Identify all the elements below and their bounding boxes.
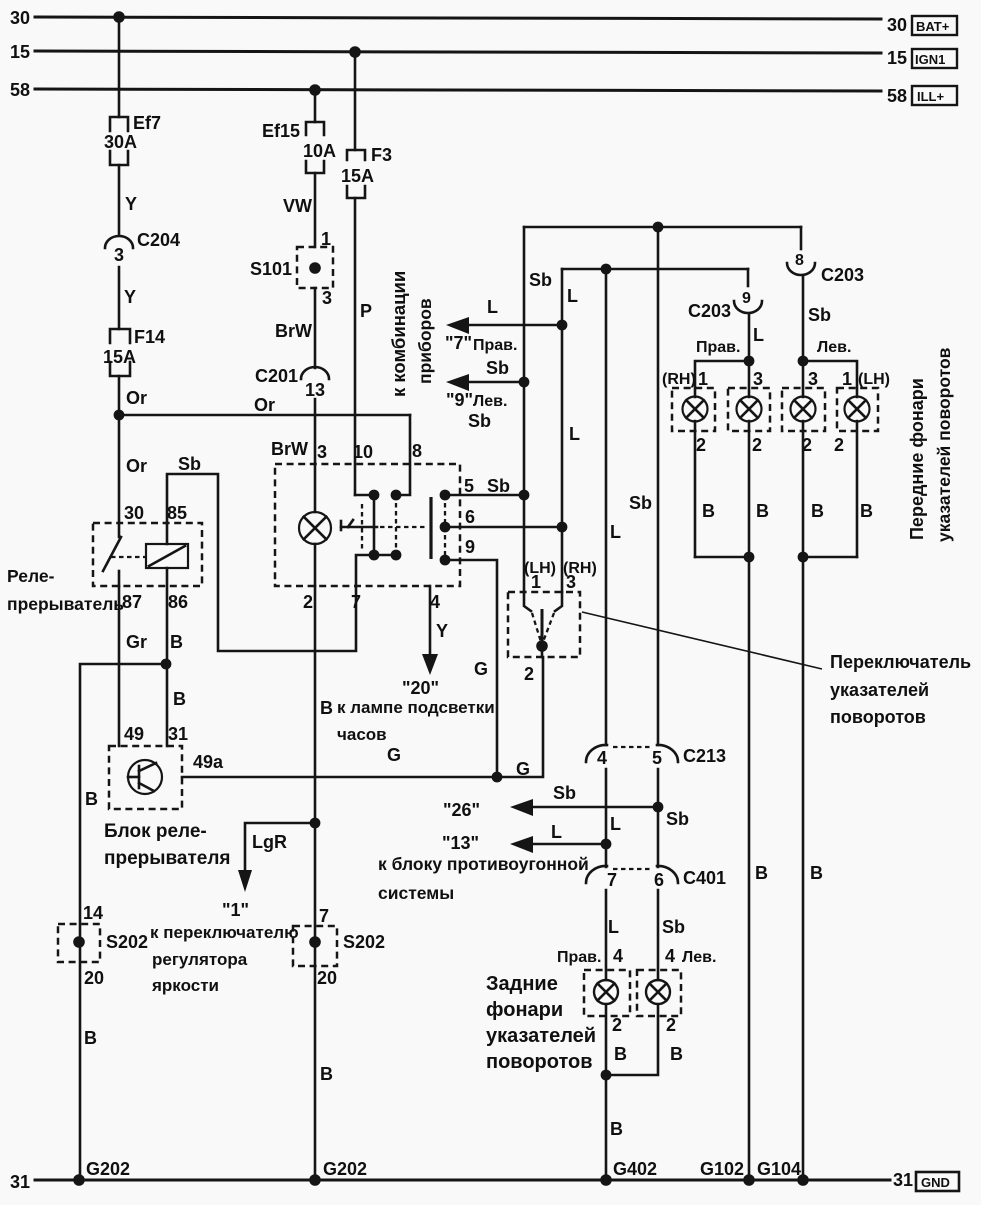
wire to RH lamp pin1: [695, 361, 749, 397]
svg-text:B: B: [84, 1028, 97, 1048]
svg-text:системы: системы: [378, 883, 454, 903]
fuse Ef15 10A: [262, 121, 336, 173]
svg-text:Блок реле-: Блок реле-: [104, 821, 207, 842]
ground bus 31: [35, 1179, 890, 1182]
ground G104: [797, 1174, 809, 1186]
junction bus15/F3 wire: [349, 46, 361, 58]
bus 58 (ILL+): [35, 89, 881, 91]
svg-text:9: 9: [742, 290, 751, 307]
wire join LH pair: [803, 556, 857, 559]
wire F3 to hazard switch pin 10 (P): [354, 198, 357, 495]
junction bus30/Ef7 wire: [113, 11, 125, 23]
wire Sb rear vertical (upper): [657, 227, 660, 745]
svg-text:к лампе подсветки: к лампе подсветки: [337, 698, 495, 717]
wire Ef15 to S101: [314, 173, 317, 247]
node pin6 junction: [557, 522, 568, 533]
svg-text:L: L: [487, 297, 498, 317]
svg-text:указателей: указателей: [486, 1025, 596, 1047]
node arrow7 junction: [557, 320, 568, 331]
node front left feed: [798, 356, 809, 367]
wire bus58 to fuse Ef15: [314, 90, 317, 122]
svg-text:Ef15: Ef15: [262, 121, 300, 141]
svg-text:Sb: Sb: [529, 270, 552, 290]
svg-text:B: B: [614, 1044, 627, 1064]
svg-text:49: 49: [124, 724, 144, 744]
svg-text:Прав.: Прав.: [696, 339, 740, 356]
wire 49a (G) to turn switch pin 2: [182, 657, 543, 777]
svg-text:IGN1: IGN1: [915, 52, 945, 67]
svg-text:LgR: LgR: [252, 832, 287, 852]
wire L vertical to turn switch pin 3: [561, 269, 564, 592]
svg-text:5: 5: [464, 476, 474, 496]
svg-text:14: 14: [83, 903, 103, 923]
svg-text:Sb: Sb: [629, 493, 652, 513]
svg-text:7: 7: [351, 592, 361, 612]
svg-text:C203: C203: [688, 301, 731, 321]
pin 5 wire to Sb vertical: [445, 494, 524, 497]
wire L C401 to rear RH lamp: [605, 890, 608, 980]
relay mechanical link: [111, 556, 146, 558]
connector C401 pins 7/6: [586, 866, 726, 890]
ILL+ terminal box: [912, 86, 957, 105]
svg-text:2: 2: [752, 435, 762, 455]
switch arm near lamp: [341, 520, 377, 530]
svg-text:поворотов: поворотов: [486, 1051, 593, 1073]
fuse F3 15A: [341, 145, 392, 198]
svg-text:поворотов: поворотов: [830, 707, 926, 727]
svg-text:87: 87: [122, 592, 142, 612]
svg-text:GND: GND: [921, 1175, 950, 1190]
wire hazard pin2 down to S202: [314, 586, 317, 1180]
svg-text:2: 2: [666, 1015, 676, 1035]
svg-text:BAT+: BAT+: [916, 19, 950, 34]
svg-text:Sb: Sb: [178, 454, 201, 474]
right contact dots column dashed: [444, 495, 446, 560]
svg-text:C203: C203: [821, 265, 864, 285]
svg-text:Лев.: Лев.: [817, 339, 851, 356]
svg-text:Прав.: Прав.: [473, 337, 517, 354]
node Or junction: [114, 410, 125, 421]
turn signal switch dashed box: [508, 592, 580, 657]
arrow "13" L to anti-theft unit: [442, 822, 606, 853]
svg-text:G: G: [387, 745, 401, 765]
svg-text:L: L: [610, 814, 621, 834]
svg-text:ILL+: ILL+: [917, 89, 944, 104]
arrow "7" Прав. to instrument cluster: [445, 297, 562, 354]
node arrow9 junction: [519, 377, 530, 388]
svg-text:B: B: [170, 632, 183, 652]
turn switch pole: [541, 609, 544, 646]
svg-text:C401: C401: [683, 868, 726, 888]
svg-text:3: 3: [753, 369, 763, 389]
turn switch stubs: [524, 592, 531, 611]
wire Sb relay coil 85 feed: [167, 474, 356, 651]
svg-text:86: 86: [168, 592, 188, 612]
ground G202 (left): [73, 1174, 85, 1186]
svg-text:7: 7: [607, 870, 617, 890]
svg-text:15A: 15A: [341, 166, 374, 186]
wire Or horizontal to hazard switch pin 8: [119, 414, 410, 417]
node arrow13 junction: [601, 839, 612, 850]
svg-text:к блоку противоугонной: к блоку противоугонной: [378, 854, 589, 874]
bus 30 (BAT+): [35, 17, 881, 19]
BAT+ terminal box: [912, 16, 957, 35]
svg-text:Ef7: Ef7: [133, 113, 161, 133]
svg-text:Передние фонари: Передние фонари: [907, 378, 927, 540]
svg-text:49a: 49a: [193, 752, 224, 772]
svg-text:"20": "20": [402, 678, 439, 698]
svg-text:G402: G402: [613, 1159, 657, 1179]
svg-text:VW: VW: [283, 196, 312, 216]
arrow "26" Sb to anti-theft unit: [443, 783, 658, 820]
node turn switch common: [536, 640, 548, 652]
node rear join: [601, 1070, 612, 1081]
svg-text:G: G: [516, 759, 530, 779]
svg-text:6: 6: [654, 870, 664, 890]
svg-text:BrW: BrW: [271, 439, 308, 459]
svg-text:L: L: [551, 822, 562, 842]
svg-text:Sb: Sb: [808, 305, 831, 325]
front turn lamp 4 (LH): [837, 388, 878, 431]
contact bridge dashed: [395, 495, 397, 555]
svg-text:2: 2: [303, 592, 313, 612]
svg-text:прерывателя: прерывателя: [104, 848, 231, 869]
svg-text:4: 4: [613, 946, 623, 966]
svg-text:к переключателю: к переключателю: [150, 923, 299, 942]
svg-text:31: 31: [893, 1170, 913, 1190]
wire branch left to ground leg: [80, 664, 166, 1180]
svg-text:Задние: Задние: [486, 973, 558, 995]
svg-text:Sb: Sb: [553, 783, 576, 803]
svg-text:30: 30: [124, 503, 144, 523]
wire L horizontal to C203-9: [562, 268, 748, 271]
svg-text:Or: Or: [254, 395, 275, 415]
wire C201 to hazard switch pin 3: [314, 399, 317, 512]
node G junction: [492, 772, 503, 783]
wire C204 to F14: [118, 267, 121, 329]
svg-text:2: 2: [612, 1015, 622, 1035]
wire down to G104: [802, 557, 805, 1180]
svg-text:Реле-: Реле-: [7, 566, 55, 586]
svg-text:13: 13: [305, 380, 325, 400]
wire to LH lamp pin1: [803, 361, 857, 397]
connector C213 pins 4/5: [586, 745, 726, 768]
pin 6 wire to L vertical: [445, 526, 562, 529]
svg-text:8: 8: [795, 252, 804, 269]
svg-text:15: 15: [10, 42, 30, 62]
node LgR junction: [310, 818, 321, 829]
svg-text:B: B: [756, 501, 769, 521]
svg-text:Or: Or: [126, 388, 147, 408]
hazard warning switch dashed box: [275, 464, 460, 586]
svg-text:B: B: [85, 789, 98, 809]
GND terminal box: [916, 1172, 959, 1191]
svg-text:4: 4: [597, 748, 607, 768]
splice S202 (left): [58, 903, 148, 988]
node Sb branch to rear: [653, 222, 664, 233]
svg-text:10: 10: [353, 442, 373, 462]
rear lamp return wires: [605, 1005, 608, 1180]
svg-text:S202: S202: [106, 932, 148, 952]
wire pin87 down to flasher pin 49 (Gr): [118, 586, 121, 746]
wire Sb top horizontal to C203-8: [524, 226, 801, 229]
svg-text:L: L: [610, 522, 621, 542]
svg-text:6: 6: [465, 507, 475, 527]
svg-text:прерыватель: прерыватель: [7, 594, 124, 614]
svg-text:B: B: [320, 698, 333, 718]
svg-text:B: B: [810, 863, 823, 883]
svg-text:"26": "26": [443, 800, 480, 820]
fuse F14 15A: [103, 327, 165, 376]
svg-text:(LH): (LH): [858, 371, 890, 388]
svg-text:S101: S101: [250, 259, 292, 279]
svg-text:C204: C204: [137, 230, 180, 250]
svg-text:B: B: [860, 501, 873, 521]
splice S202 (right): [293, 906, 385, 988]
svg-text:B: B: [320, 1064, 333, 1084]
ground G402: [600, 1174, 612, 1186]
relay coil: [146, 544, 188, 568]
wire bus15 to fuse F3: [354, 52, 357, 150]
svg-text:L: L: [608, 917, 619, 937]
wire Sb C401 to rear LH lamp: [657, 890, 660, 980]
svg-text:фонари: фонари: [486, 999, 563, 1021]
wire hazard pin4 Y arrow to clock lamp: [422, 586, 448, 675]
svg-text:указателей поворотов: указателей поворотов: [934, 347, 954, 542]
wire Sb vertical to turn switch pin 1: [523, 227, 526, 592]
svg-text:1: 1: [531, 572, 541, 592]
svg-text:2: 2: [696, 435, 706, 455]
svg-text:9: 9: [465, 537, 475, 557]
splice S101: [250, 247, 333, 288]
svg-text:30: 30: [10, 8, 30, 28]
svg-text:Sb: Sb: [486, 358, 509, 378]
svg-text:58: 58: [887, 86, 907, 106]
wire Sb C213 to C401: [657, 769, 660, 867]
bus 15 (IGN1): [35, 51, 881, 53]
wire S101 to C201 (BrW): [314, 288, 317, 368]
svg-text:BrW: BrW: [275, 321, 312, 341]
pin 2 wire: [541, 646, 544, 657]
front turn lamp 3: [782, 388, 825, 431]
svg-text:Y: Y: [124, 287, 136, 307]
svg-text:31: 31: [10, 1172, 30, 1192]
svg-text:20: 20: [84, 968, 104, 988]
svg-text:4: 4: [430, 592, 440, 612]
transistor Q inside flasher: [128, 760, 162, 794]
node arrow26 junction: [653, 802, 664, 813]
right contact bar (wiper): [429, 497, 432, 559]
svg-text:G202: G202: [323, 1159, 367, 1179]
arrow "9" Лев. to instrument cluster: [446, 358, 524, 410]
node junction on B wire: [161, 659, 172, 670]
flasher unit U: Блок реле-прерывателя dashed box: [109, 746, 182, 809]
svg-text:5: 5: [652, 748, 662, 768]
svg-text:31: 31: [168, 724, 188, 744]
pin 87 stub: [118, 571, 121, 586]
svg-text:Gr: Gr: [126, 632, 147, 652]
svg-text:P: P: [360, 301, 372, 321]
svg-text:1: 1: [842, 369, 852, 389]
wire L C213 to C401: [605, 769, 608, 867]
svg-text:3: 3: [317, 442, 327, 462]
svg-text:4: 4: [665, 946, 675, 966]
svg-text:B: B: [755, 863, 768, 883]
svg-text:Прав.: Прав.: [557, 949, 601, 966]
wire Ef7 to C204: [118, 165, 121, 234]
lamp (hazard indicator): [299, 512, 331, 544]
svg-text:2: 2: [834, 435, 844, 455]
connector C203 pin 8: [787, 227, 864, 285]
svg-text:Переключатель: Переключатель: [830, 652, 971, 672]
wire L rear vertical (upper): [605, 269, 608, 745]
ground G102: [743, 1174, 755, 1186]
svg-text:Y: Y: [125, 194, 137, 214]
svg-text:15: 15: [887, 48, 907, 68]
wire join RH pair: [695, 556, 749, 559]
wire C203-8 down (Sb): [802, 276, 805, 397]
svg-text:3: 3: [566, 572, 576, 592]
connector C201 pin 13: [255, 366, 329, 400]
svg-text:C213: C213: [683, 746, 726, 766]
turn switch contact V dashed: [532, 613, 541, 642]
svg-text:58: 58: [10, 80, 30, 100]
svg-text:85: 85: [167, 503, 187, 523]
svg-text:L: L: [753, 325, 764, 345]
svg-text:"9": "9": [446, 390, 473, 410]
svg-text:"1": "1": [222, 900, 249, 920]
wire C203-9 down (L): [748, 314, 751, 397]
connector C204 pin 3: [105, 230, 180, 265]
svg-text:F3: F3: [371, 145, 392, 165]
svg-text:2: 2: [524, 664, 534, 684]
arrow LgR to dimmer switch: [238, 823, 315, 892]
svg-text:G104: G104: [757, 1159, 801, 1179]
dashed travel marker: [361, 504, 363, 550]
node L branch to rear: [601, 264, 612, 275]
rear turn lamp RH: [584, 970, 630, 1016]
svg-text:30A: 30A: [104, 132, 137, 152]
wire pin86 down to flasher pin 31 (B): [166, 568, 169, 746]
svg-text:B: B: [702, 501, 715, 521]
svg-text:Лев.: Лев.: [682, 949, 716, 966]
svg-text:20: 20: [317, 968, 337, 988]
contact bridge solid: [373, 495, 376, 555]
svg-text:8: 8: [412, 441, 422, 461]
wire Or corner down into hazard pin 8: [396, 415, 410, 495]
lamp return wires B: [694, 421, 697, 557]
mechanical link dashed: [380, 526, 427, 528]
svg-text:"7": "7": [445, 333, 472, 353]
svg-text:G102: G102: [700, 1159, 744, 1179]
svg-text:приборов: приборов: [415, 298, 435, 384]
pointer line to label: [582, 612, 822, 669]
pin 9 wire (G) down to 49a junction: [445, 560, 497, 777]
svg-text:15A: 15A: [103, 347, 136, 367]
svg-text:G: G: [474, 659, 488, 679]
node front right feed: [744, 356, 755, 367]
connector C203 pin 9: [688, 269, 762, 321]
relay R: Реле-прерыватель dashed box: [93, 523, 202, 586]
svg-text:B: B: [610, 1119, 623, 1139]
svg-text:7: 7: [319, 906, 329, 926]
front turn lamp 2: [728, 388, 770, 431]
svg-text:Sb: Sb: [468, 411, 491, 431]
svg-text:3: 3: [114, 245, 124, 265]
node pin5 junction: [519, 490, 530, 501]
svg-text:C201: C201: [255, 366, 298, 386]
relay contact arm: [103, 537, 121, 571]
contact dots row: [369, 490, 380, 501]
hazard contact: pin10 route: [355, 494, 374, 497]
wire bus30 to fuse Ef7: [118, 17, 121, 117]
svg-text:L: L: [569, 424, 580, 444]
svg-text:регулятора: регулятора: [152, 950, 248, 969]
junction bus58/Ef15 wire: [309, 84, 321, 96]
svg-text:Y: Y: [436, 621, 448, 641]
svg-text:указателей: указателей: [830, 680, 929, 700]
svg-text:B: B: [173, 689, 186, 709]
svg-text:к комбинации: к комбинации: [388, 271, 409, 397]
svg-text:Sb: Sb: [662, 917, 685, 937]
ground G202 (middle): [309, 1174, 321, 1186]
svg-text:10A: 10A: [303, 141, 336, 161]
svg-text:3: 3: [808, 369, 818, 389]
svg-text:S202: S202: [343, 932, 385, 952]
svg-text:часов: часов: [337, 725, 387, 744]
IGN1 terminal box: [912, 49, 957, 68]
svg-text:L: L: [567, 286, 578, 306]
svg-text:Sb: Sb: [666, 809, 689, 829]
rear turn lamp LH: [637, 970, 681, 1016]
svg-text:Лев.: Лев.: [473, 393, 507, 410]
svg-text:G202: G202: [86, 1159, 130, 1179]
svg-text:Sb: Sb: [487, 476, 510, 496]
svg-text:яркости: яркости: [151, 976, 219, 995]
bottom contact bar to pin 7: [374, 554, 396, 557]
svg-text:30: 30: [887, 15, 907, 35]
svg-text:3: 3: [322, 288, 332, 308]
lamp wire below: [314, 544, 317, 586]
svg-text:"13": "13": [442, 833, 479, 853]
front turn lamp 1 (RH): [672, 388, 715, 431]
svg-text:(RH): (RH): [662, 371, 696, 388]
svg-text:B: B: [670, 1044, 683, 1064]
svg-text:Or: Or: [126, 456, 147, 476]
wire F14 down to relay pin 30: [118, 376, 121, 537]
svg-text:F14: F14: [134, 327, 165, 347]
fuse Ef7 30A: [104, 113, 161, 165]
svg-text:B: B: [811, 501, 824, 521]
svg-text:1: 1: [698, 369, 708, 389]
wire down to G102: [748, 557, 751, 1180]
